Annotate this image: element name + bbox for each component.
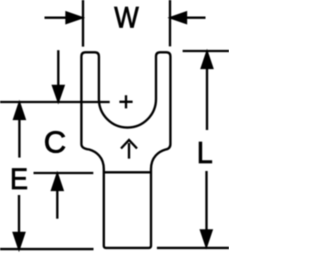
L down arrow (205, 171, 207, 230)
svg-text:C: C (44, 125, 66, 160)
C top arrow (down) (57, 50, 59, 86)
E top arrow (up) (18, 118, 20, 158)
line A (slot-center reference) (0, 101, 110, 103)
bottom right extension line (157, 247, 229, 249)
W left arrow (45, 17, 68, 19)
L up arrow (206, 68, 208, 130)
svg-text:W: W (114, 1, 139, 34)
line B (C reference) (34, 172, 94, 174)
barrel top line (104, 171, 151, 173)
bottom left extension line (0, 248, 94, 250)
plus mark at slot center (119, 95, 132, 108)
W extension lines (83, 0, 170, 47)
fork terminal body outline (81, 52, 170, 248)
svg-text:L: L (197, 135, 213, 170)
L top extension line (183, 50, 229, 52)
C bottom arrow (up) (56, 190, 58, 219)
up arrow glyph inside body (121, 140, 137, 159)
svg-text:E: E (10, 163, 28, 196)
E bottom arrow (down) (18, 195, 20, 233)
W right arrow (185, 17, 206, 19)
